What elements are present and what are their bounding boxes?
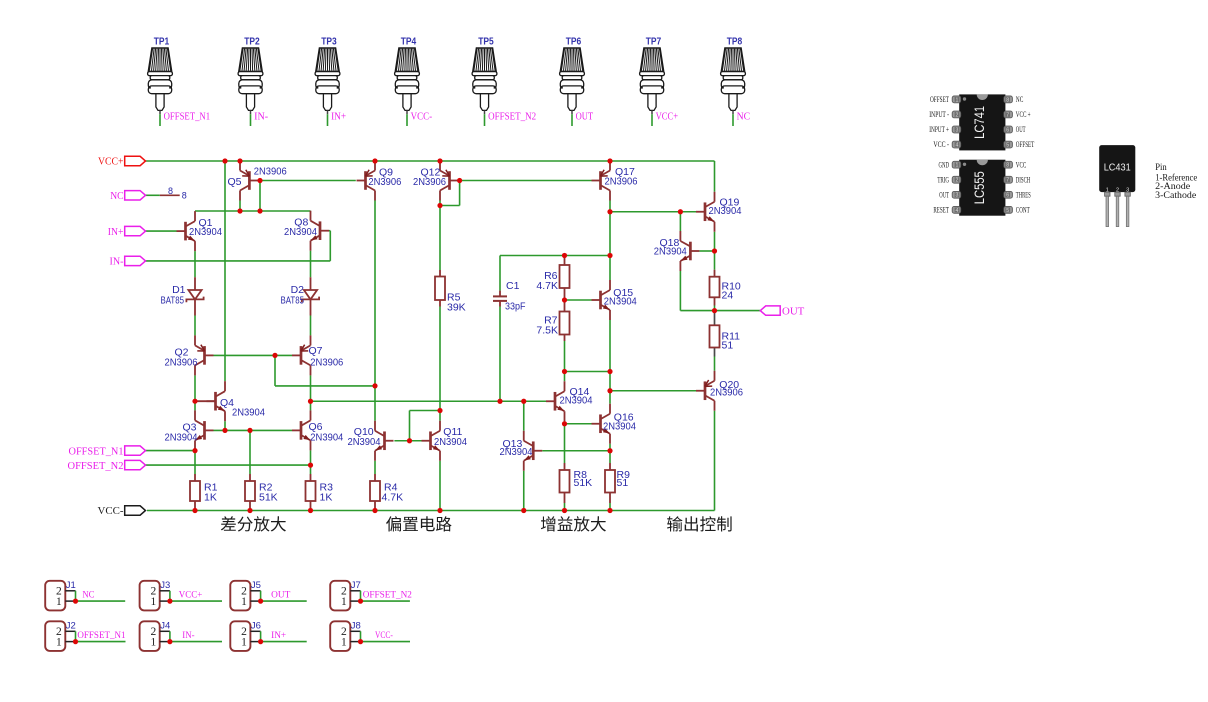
svg-text:J5: J5: [251, 580, 261, 591]
svg-text:RESET: RESET: [933, 205, 949, 214]
svg-text:TP7: TP7: [646, 35, 662, 47]
svg-text:1: 1: [956, 97, 959, 103]
svg-text:VCC +: VCC +: [1016, 110, 1031, 119]
svg-text:TP8: TP8: [727, 35, 743, 47]
svg-text:3: 3: [956, 193, 959, 199]
svg-text:LC431: LC431: [1104, 163, 1131, 174]
svg-text:OUT: OUT: [576, 112, 594, 123]
svg-text:6: 6: [1006, 193, 1009, 199]
svg-text:CONT: CONT: [1016, 205, 1030, 214]
svg-text:NC: NC: [82, 591, 94, 601]
svg-text:1K: 1K: [204, 492, 217, 504]
svg-text:TRIG: TRIG: [937, 175, 949, 184]
svg-text:IN+: IN+: [271, 631, 286, 641]
svg-text:IN+: IN+: [331, 112, 346, 123]
svg-text:2N3906: 2N3906: [254, 165, 287, 177]
svg-text:VCC-: VCC-: [411, 112, 433, 123]
svg-text:2: 2: [956, 178, 959, 184]
svg-text:Pin: Pin: [1155, 163, 1167, 173]
svg-text:NC: NC: [110, 190, 123, 202]
svg-text:2: 2: [956, 112, 959, 118]
svg-text:VCC-: VCC-: [98, 505, 124, 517]
svg-text:6: 6: [1006, 127, 1009, 133]
svg-text:OUT: OUT: [782, 305, 805, 317]
svg-text:2N3904: 2N3904: [189, 226, 222, 238]
svg-text:4: 4: [956, 208, 959, 214]
svg-text:51K: 51K: [574, 477, 593, 489]
svg-text:TP1: TP1: [154, 35, 170, 47]
svg-text:OFFSET_N2: OFFSET_N2: [488, 112, 536, 123]
svg-text:VCC+: VCC+: [656, 112, 679, 123]
svg-text:5: 5: [1006, 208, 1009, 214]
svg-text:8: 8: [1006, 97, 1009, 103]
svg-text:VCC-: VCC-: [375, 631, 393, 641]
svg-text:OFFSET: OFFSET: [1016, 140, 1035, 149]
svg-text:2N3904: 2N3904: [284, 226, 317, 238]
svg-text:GND: GND: [939, 160, 950, 169]
svg-text:VCC: VCC: [1016, 160, 1027, 169]
svg-text:2N3904: 2N3904: [232, 406, 265, 418]
svg-text:4.7K: 4.7K: [382, 492, 404, 504]
svg-text:OUT: OUT: [1016, 125, 1026, 134]
svg-text:1: 1: [341, 596, 347, 608]
svg-text:2N3904: 2N3904: [310, 431, 343, 443]
svg-text:8: 8: [1006, 163, 1009, 169]
svg-text:1: 1: [150, 637, 156, 649]
svg-text:2N3904: 2N3904: [165, 431, 198, 443]
svg-text:OUT: OUT: [939, 190, 949, 199]
svg-text:51K: 51K: [259, 492, 278, 504]
svg-text:J6: J6: [251, 621, 261, 632]
svg-text:2N3904: 2N3904: [603, 421, 636, 433]
svg-text:2N3906: 2N3906: [368, 176, 401, 188]
svg-text:J1: J1: [66, 580, 76, 591]
svg-text:1: 1: [241, 596, 247, 608]
svg-text:OFFSET_N1: OFFSET_N1: [77, 631, 125, 641]
svg-text:OFFSET_N1: OFFSET_N1: [69, 445, 124, 457]
svg-text:LC555: LC555: [972, 171, 987, 204]
svg-text:2N3904: 2N3904: [709, 205, 742, 217]
svg-text:1: 1: [56, 596, 62, 608]
svg-text:2N3904: 2N3904: [500, 446, 533, 458]
svg-text:8: 8: [182, 191, 187, 201]
svg-text:39K: 39K: [447, 302, 466, 314]
svg-text:TP2: TP2: [244, 35, 260, 47]
svg-text:2N3906: 2N3906: [605, 176, 638, 188]
svg-text:2N3906: 2N3906: [310, 356, 343, 368]
svg-text:INPUT +: INPUT +: [929, 125, 949, 134]
svg-text:TP6: TP6: [566, 35, 582, 47]
svg-text:INPUT -: INPUT -: [929, 110, 949, 119]
svg-text:OFFSET: OFFSET: [930, 95, 949, 104]
svg-text:DISCH: DISCH: [1016, 175, 1031, 184]
svg-text:1K: 1K: [320, 492, 333, 504]
svg-text:4: 4: [956, 142, 959, 148]
svg-text:BAT85: BAT85: [161, 294, 185, 306]
svg-text:NC: NC: [1016, 95, 1024, 104]
svg-text:J3: J3: [160, 580, 170, 591]
svg-text:THRES: THRES: [1016, 190, 1031, 199]
svg-text:7: 7: [1006, 178, 1009, 184]
svg-text:NC: NC: [737, 112, 751, 123]
svg-text:Q7: Q7: [309, 345, 323, 357]
svg-text:TP5: TP5: [478, 35, 494, 47]
svg-text:OUT: OUT: [271, 591, 290, 601]
svg-text:8: 8: [168, 186, 173, 196]
svg-text:C1: C1: [506, 280, 520, 292]
svg-text:J8: J8: [351, 621, 361, 632]
svg-text:5: 5: [1006, 142, 1009, 148]
svg-text:3: 3: [956, 127, 959, 133]
svg-text:7: 7: [1006, 112, 1009, 118]
svg-text:1: 1: [341, 637, 347, 649]
svg-text:1: 1: [956, 163, 959, 169]
svg-text:OFFSET_N2: OFFSET_N2: [363, 591, 412, 601]
svg-text:Q5: Q5: [228, 176, 242, 188]
svg-text:J4: J4: [160, 621, 170, 632]
svg-text:1: 1: [56, 637, 62, 649]
svg-text:IN+: IN+: [108, 226, 124, 238]
svg-text:VCC+: VCC+: [98, 156, 124, 168]
svg-text:IN-: IN-: [182, 631, 194, 641]
svg-text:2N3904: 2N3904: [604, 296, 637, 308]
svg-text:VCC+: VCC+: [179, 591, 203, 601]
svg-text:2N3904: 2N3904: [560, 395, 593, 407]
svg-text:IN-: IN-: [254, 112, 268, 123]
svg-text:7.5K: 7.5K: [536, 325, 558, 337]
svg-text:2N3906: 2N3906: [710, 387, 743, 399]
svg-text:2N3904: 2N3904: [654, 246, 687, 258]
svg-text:51: 51: [617, 477, 629, 489]
svg-text:4.7K: 4.7K: [536, 280, 558, 292]
svg-text:VCC -: VCC -: [933, 140, 949, 149]
svg-text:2N3906: 2N3906: [165, 356, 198, 368]
svg-text:33pF: 33pF: [505, 301, 526, 313]
svg-text:IN-: IN-: [110, 256, 124, 268]
svg-text:OFFSET_N1: OFFSET_N1: [164, 112, 211, 123]
svg-text:BAT85: BAT85: [281, 294, 305, 306]
svg-text:2N3904: 2N3904: [434, 436, 467, 448]
svg-text:2N3906: 2N3906: [413, 176, 446, 188]
svg-text:TP4: TP4: [401, 35, 417, 47]
svg-text:3-Cathode: 3-Cathode: [1155, 191, 1196, 201]
svg-text:J7: J7: [351, 580, 361, 591]
svg-text:24: 24: [722, 289, 734, 301]
svg-text:LC741: LC741: [972, 106, 987, 139]
svg-text:2N3904: 2N3904: [348, 436, 381, 448]
svg-text:1: 1: [150, 596, 156, 608]
svg-text:51: 51: [722, 339, 734, 351]
svg-text:J2: J2: [66, 621, 76, 632]
svg-text:TP3: TP3: [321, 35, 337, 47]
svg-text:1: 1: [241, 637, 247, 649]
svg-text:OFFSET_N2: OFFSET_N2: [68, 460, 124, 472]
